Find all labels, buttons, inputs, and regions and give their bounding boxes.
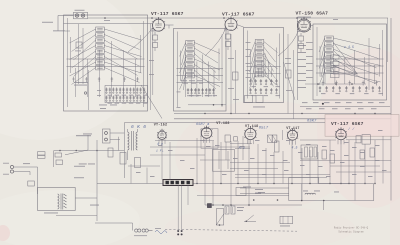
label SENSITIVITY CONTROL xyxy=(74,81,88,84)
T1 trimmers lower trimmer capacitor row xyxy=(105,96,145,102)
wire V3 plate lead xyxy=(310,25,313,27)
capacitor in gap B-C xyxy=(233,72,239,80)
oscillator coil unit T4 coil stack xyxy=(325,36,334,73)
RF transformer unit T2 coil stack xyxy=(186,41,195,78)
wire bottom bus of middle row xyxy=(97,183,355,185)
capacitor C31 block xyxy=(234,137,238,141)
phone jack J1 dark xyxy=(208,204,212,208)
wire dynamotor to relay xyxy=(75,197,97,199)
coupling boxes with X xyxy=(268,135,273,143)
svg-text:Radio Receiver BC-348-Q: Radio Receiver BC-348-Q xyxy=(334,227,369,230)
wire power riser xyxy=(53,151,55,168)
junction box P-106 xyxy=(236,188,246,196)
svg-text:VT-150 6SA7: VT-150 6SA7 xyxy=(296,10,329,16)
RF transformer unit T1 internal bus wires xyxy=(67,58,145,60)
label 2W-16 xyxy=(243,186,251,189)
tube V8 6SK7 IF envelope xyxy=(335,127,347,140)
T2 trimmers value labels xyxy=(189,94,217,97)
labels under box A bottom xyxy=(99,104,107,107)
dynamotor winding xyxy=(58,194,67,210)
resistor R21 xyxy=(135,158,141,168)
wire HT bus xyxy=(174,113,391,115)
oscillator coil unit T4 switch fan wires xyxy=(319,38,381,86)
tube V4 6K6 output envelope xyxy=(157,129,167,140)
label under V1 xyxy=(151,30,159,33)
choke L2 coil xyxy=(305,193,315,194)
svg-text:c 4.5: c 4.5 xyxy=(344,45,354,49)
labels gap B-C xyxy=(228,57,234,60)
capacitor C40 xyxy=(356,136,361,143)
resistor bank box xyxy=(301,145,318,159)
tube V2 6SK7 envelope xyxy=(224,16,237,30)
RF transformer unit T2 internal bus wires xyxy=(177,68,224,70)
resistor/capacitor pair R6/C6 cathode of V2 xyxy=(226,34,231,39)
label 2Q-1 24V xyxy=(74,165,85,168)
label near riser xyxy=(83,133,92,136)
wire bottom step xyxy=(95,222,133,224)
antenna terminal box xyxy=(74,12,88,18)
RF transformer unit T3 switch bank verticals xyxy=(256,54,272,78)
label 100 ohm xyxy=(314,190,320,193)
wire right margin xyxy=(390,18,392,201)
wire V2 plate lead xyxy=(237,25,244,28)
tube V6 VT-118 envelope xyxy=(244,126,256,139)
diagonal wire gap C-D xyxy=(284,62,296,100)
wire grid curve V2 xyxy=(205,27,226,56)
label on top bus xyxy=(104,19,110,22)
capacitor in gap C-D xyxy=(286,70,292,78)
wire bus 205 xyxy=(205,204,302,206)
capacitor C30 block xyxy=(225,135,230,142)
labels under oscillator box xyxy=(302,102,385,109)
tube V7 VT-117 envelope xyxy=(287,128,298,140)
electrolytic capacitor C51 xyxy=(231,206,235,214)
label under V3 xyxy=(297,30,305,33)
pink audio section box xyxy=(325,115,399,137)
terminal strip box with dark labels xyxy=(163,180,193,186)
stage box around V5 xyxy=(201,129,218,149)
switch S4 lever xyxy=(246,215,254,221)
component boxes below T3 xyxy=(245,96,253,103)
label RY-1 RLY xyxy=(74,176,84,179)
wire gap C-D vertical 1 xyxy=(287,34,289,114)
T1 trimmers lower value labels xyxy=(108,102,148,105)
wire drop from choke xyxy=(323,201,325,211)
label A-105 xyxy=(42,21,53,24)
dynamotor terminal box DM-28a xyxy=(38,152,46,155)
wire earphone riser xyxy=(118,137,120,151)
RF transformer unit T1 enclosure box xyxy=(64,15,148,111)
wire gap A-B vertical 1 xyxy=(150,24,152,111)
filter choke box xyxy=(289,178,374,201)
wire diagonal AVC feed xyxy=(141,85,162,119)
wire gap C-D vertical 2 xyxy=(293,50,295,119)
wire gap B-C vertical 1 xyxy=(230,34,232,114)
output jack box xyxy=(103,129,111,143)
svg-text:6 K 6: 6 K 6 xyxy=(131,124,146,130)
resistor/capacitor pair R3/C3 cathode of V1 xyxy=(153,35,158,40)
wire bus 195.5 xyxy=(197,195,289,197)
wire antenna to left xyxy=(58,15,74,17)
RF transformer unit T3 enclosure box xyxy=(244,28,284,103)
T4 bottom rails xyxy=(305,83,366,85)
IF can box xyxy=(213,149,235,171)
labels right of P-106 xyxy=(255,188,263,191)
svg-text:VT-117 6SK7: VT-117 6SK7 xyxy=(151,11,184,17)
wire bus 188 xyxy=(240,187,289,189)
svg-text:/ /: / / xyxy=(348,127,355,132)
capacitor box C60b xyxy=(56,160,63,165)
labels left of T1 trimmers xyxy=(97,89,101,92)
svg-text:6SK7: 6SK7 xyxy=(307,120,317,124)
T2 trimmers trimmer capacitor row xyxy=(187,88,215,94)
label 1000 xyxy=(334,191,339,194)
antenna terminal A2 xyxy=(81,14,84,17)
labels near power terminals xyxy=(3,162,9,165)
wire T1 coil taps xyxy=(77,24,79,84)
wire inner bus of T1 xyxy=(64,23,153,25)
wire drops to ground bus xyxy=(131,130,383,205)
subtitle under VT-150 xyxy=(298,16,312,19)
oscillator coil unit T4 internal bus wires xyxy=(316,58,384,60)
wire top bus xyxy=(88,17,388,19)
label RF alignment xyxy=(53,29,65,32)
T2 lower labels xyxy=(187,94,199,97)
svg-text:VT-188: VT-188 xyxy=(216,122,229,126)
svg-text:4.5: 4.5 xyxy=(292,146,298,150)
sensitivity pot circle xyxy=(84,92,86,94)
wire dynamotor bottom link xyxy=(56,215,97,217)
label C-105 xyxy=(90,204,99,207)
RF transformer unit T3 internal bus wires xyxy=(247,66,281,68)
wire riser x88 xyxy=(87,135,89,150)
RF transformer unit T3 row1 value labels xyxy=(252,85,281,88)
RF transformer unit T3 row1 trimmer capacitor row xyxy=(249,79,277,85)
label mid bus right xyxy=(333,18,338,21)
wire right margin inner xyxy=(387,18,389,62)
wire long left vertical xyxy=(96,140,98,221)
RF transformer unit T2 enclosure box xyxy=(174,29,227,112)
resistor ladder left xyxy=(108,148,113,157)
RF transformer unit T1 coil stack xyxy=(96,27,105,70)
label ANT GND xyxy=(75,9,85,12)
svg-text:VT-117 6SK7: VT-117 6SK7 xyxy=(331,121,364,127)
wire lattice rows xyxy=(128,140,391,178)
tube V1 6SK7 envelope xyxy=(152,17,165,31)
oscillator coil unit T4 row1 trimmer capacitor row xyxy=(319,86,381,92)
wire AVC bus xyxy=(174,118,391,120)
RF transformer unit T3 row2 trimmer capacitor row xyxy=(249,88,277,94)
pin wires under middle tubes xyxy=(159,138,344,144)
RF transformer unit T3 row2 value labels xyxy=(252,94,281,97)
oscillator coil unit T4 switch bank verticals xyxy=(325,50,375,84)
power terminal P2 xyxy=(10,170,13,173)
chassis dashed line xyxy=(165,229,297,231)
labels C-48 C-49 xyxy=(79,163,87,166)
wire grid curve V3 xyxy=(278,28,299,56)
component S-3 in T1 xyxy=(76,42,82,48)
wire from dynamotor up xyxy=(65,150,88,155)
dynamotor unit box xyxy=(38,188,76,211)
RF transformer unit T3 switch fan wires xyxy=(250,42,278,89)
T2 label band xyxy=(181,79,187,82)
fuse holder box xyxy=(28,181,35,186)
output terminal circles xyxy=(105,132,108,135)
wire left drop xyxy=(57,16,59,32)
labels left edge T2 xyxy=(177,91,181,94)
middle row enclosure xyxy=(124,122,325,124)
wire inside choke box xyxy=(301,184,303,201)
svg-text:6SR7 a: 6SR7 a xyxy=(196,123,210,127)
labels gap C-D xyxy=(285,57,291,60)
T4 converging rays xyxy=(333,42,358,74)
label under relay xyxy=(280,225,290,228)
resistor R41 xyxy=(275,141,280,152)
RF transformer unit T3 coil stack xyxy=(255,40,264,77)
wire grid curve V1 xyxy=(128,27,153,52)
wire gap A-B vertical 2 xyxy=(152,24,154,96)
RF transformer unit T2 switch fan wires xyxy=(180,43,221,91)
electrolytic capacitor C50 xyxy=(225,206,229,214)
oscillator coil unit T4 row1 value labels xyxy=(321,92,383,95)
svg-text:Schematic Diagram: Schematic Diagram xyxy=(338,230,364,233)
coil L10 antenna loading xyxy=(135,229,153,232)
power terminal P1 xyxy=(10,165,13,168)
wire V1 plate lead xyxy=(164,24,174,26)
wire T2 bottom rail xyxy=(188,104,226,106)
svg-text:1 FL: 1 FL xyxy=(156,150,164,153)
label earphone xyxy=(76,135,91,136)
wire T4 right vertical xyxy=(368,38,370,90)
RF transformer unit T1 switch fan wires xyxy=(70,29,142,85)
T4 second padder stack xyxy=(331,55,340,78)
handwritten pigtail xyxy=(155,231,167,234)
capacitor box C60a xyxy=(55,153,62,157)
label MC-129 xyxy=(253,106,265,109)
capacitor C41 xyxy=(362,135,370,145)
wire terminals to fuse xyxy=(14,166,38,168)
wire oscillator outer bottom xyxy=(300,106,390,108)
junction dark dot under T4 xyxy=(322,103,324,105)
label beside capacitors xyxy=(237,206,244,209)
T1 trimmers upper trimmer capacitor row xyxy=(105,88,145,94)
tube V3 6SA7 envelope xyxy=(297,17,311,32)
antenna terminal A1 xyxy=(75,14,78,17)
svg-text:VT-117 6SK7: VT-117 6SK7 xyxy=(222,12,255,18)
T1 trimmer sub-box xyxy=(105,86,148,103)
switch S3 box tall xyxy=(216,209,224,225)
wire gap B-C vertical 2 xyxy=(235,50,237,114)
oscillator coil unit T4 enclosure box xyxy=(313,24,387,100)
label under V2 xyxy=(224,29,232,32)
label 4 HY xyxy=(303,190,308,193)
label 7.5A fuse xyxy=(23,162,30,165)
wire bus 193 xyxy=(240,193,289,195)
bond dots xyxy=(177,230,182,235)
wire transformer leads xyxy=(127,129,129,132)
RF transformer unit T1 coupling components xyxy=(72,77,139,82)
resistor boxes right section xyxy=(322,150,327,159)
wire power vertical xyxy=(37,167,39,194)
labels left of T4 stack xyxy=(306,41,313,44)
labels left of T3 stack xyxy=(246,41,251,44)
label under coil xyxy=(134,234,147,237)
wire screen vertical xyxy=(297,17,299,100)
label gap A-B xyxy=(149,59,154,62)
relay box K1 xyxy=(280,216,293,224)
T1 trimmers upper value labels xyxy=(108,94,148,97)
value labels middle row xyxy=(136,130,387,177)
tube V5 6SR7 detector envelope xyxy=(201,126,213,139)
wire bond drops xyxy=(177,186,179,232)
svg-text:65L7: 65L7 xyxy=(259,127,269,131)
junction dots on buses xyxy=(196,113,375,184)
RF transformer unit T2 switch bank verticals xyxy=(186,55,215,98)
resistor/capacitor pair R9/C9 cathode of V3 xyxy=(299,36,304,41)
dynamotor terminal box DM-28b xyxy=(38,156,46,159)
RF transformer unit T1 switch bank verticals xyxy=(76,41,136,97)
wire jack leads xyxy=(110,132,124,134)
junction dots on 150.5 bus xyxy=(59,150,61,152)
transformer T5 output windings xyxy=(128,131,138,151)
oscillator coil unit T4 coupling components xyxy=(322,81,378,86)
label DM-28 dynamotor xyxy=(44,212,58,215)
wire sensitivity drop xyxy=(88,70,90,110)
svg-text:VT-152: VT-152 xyxy=(154,123,167,127)
label column gap C-D xyxy=(298,44,307,47)
resistor R20 xyxy=(120,153,126,165)
